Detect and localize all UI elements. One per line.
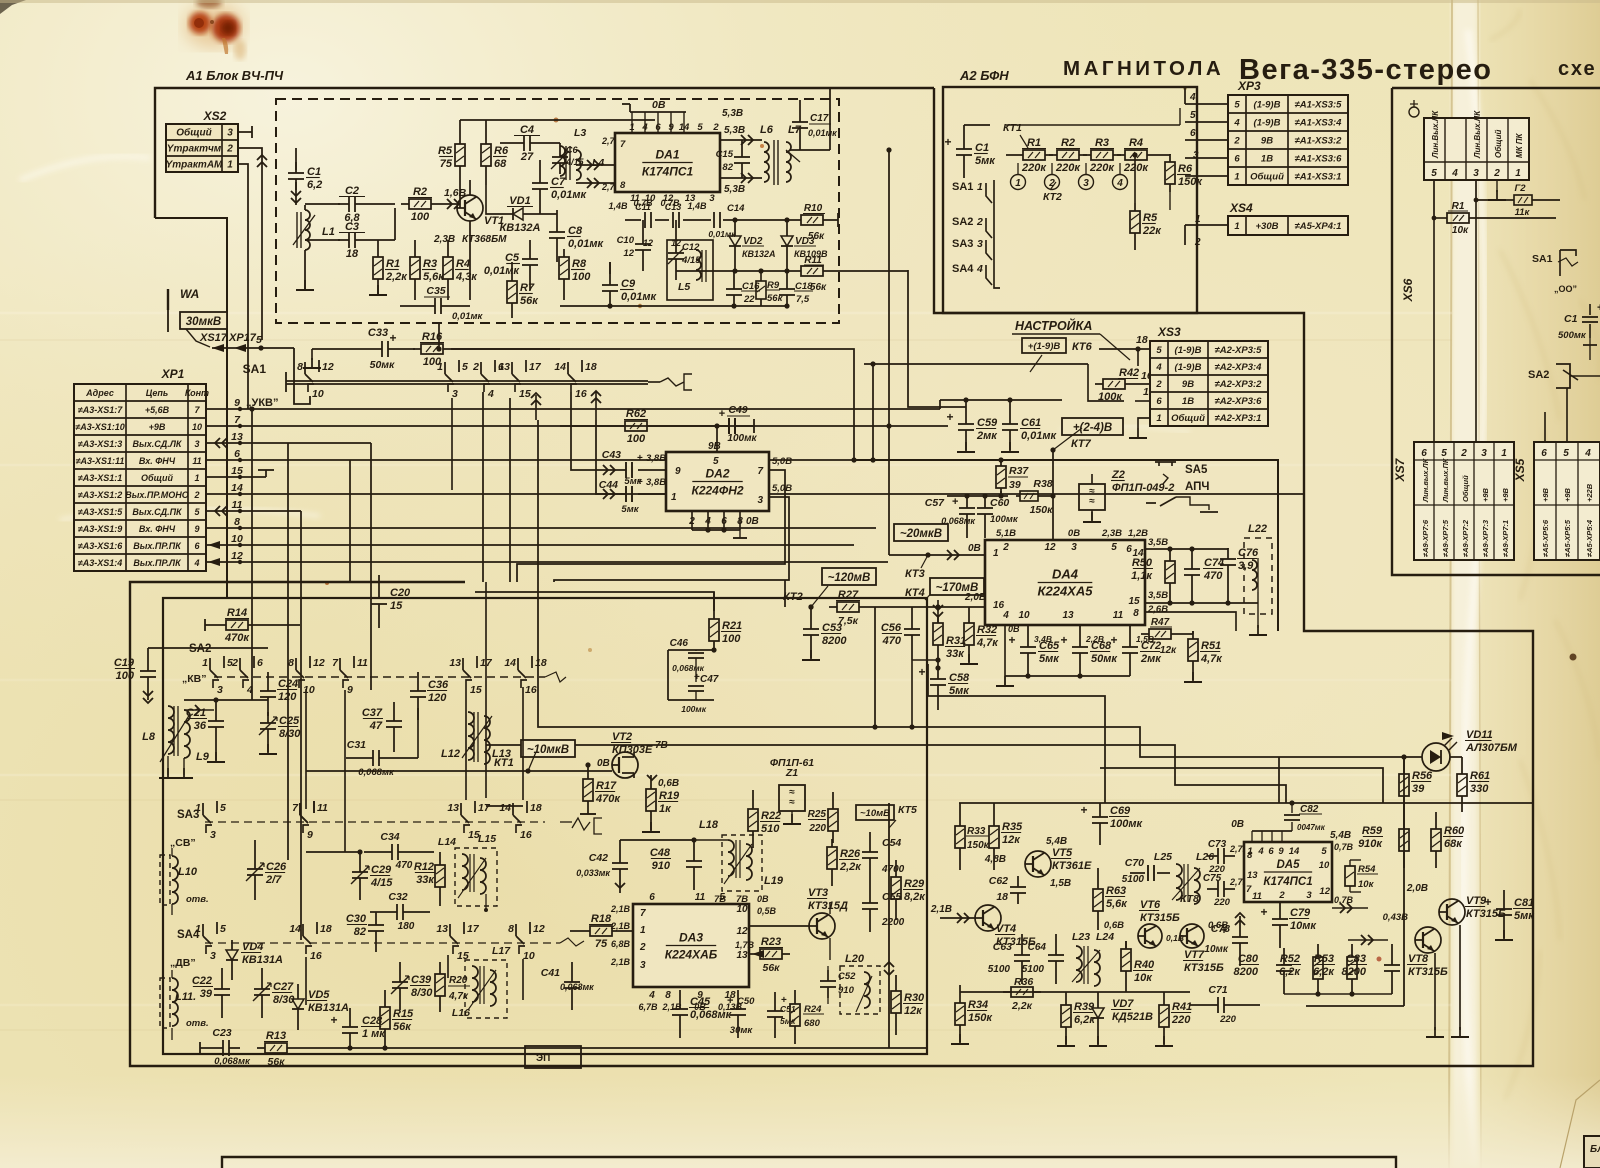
svg-text:R41: R41 <box>1172 1001 1192 1013</box>
svg-text:+30В: +30В <box>1256 221 1279 232</box>
svg-text:C27: C27 <box>273 981 294 993</box>
svg-text:≠А5-ХР5:4: ≠А5-ХР5:4 <box>1585 519 1594 557</box>
svg-text:SA3: SA3 <box>952 238 973 250</box>
svg-text:22: 22 <box>743 294 755 305</box>
capacitor C21 <box>215 710 217 721</box>
svg-text:DA2: DA2 <box>705 467 729 481</box>
svg-text:≠А5-ХР5:5: ≠А5-ХР5:5 <box>1563 519 1572 557</box>
svg-text:6,2к: 6,2к <box>1279 966 1301 978</box>
svg-text:C3: C3 <box>345 221 359 233</box>
svg-text:8: 8 <box>1133 608 1139 619</box>
long bus verticals from XP1 rows <box>251 409 253 700</box>
svg-text:2,2к: 2,2к <box>839 861 862 873</box>
svg-text:4: 4 <box>1155 362 1162 373</box>
svg-text:2,3В: 2,3В <box>433 234 455 245</box>
wire L9 to SA2 <box>184 709 214 711</box>
svg-text:1к: 1к <box>659 803 672 815</box>
svg-text:5: 5 <box>1563 448 1569 459</box>
svg-text:2: 2 <box>1002 542 1009 553</box>
svg-text:С64: С64 <box>1028 942 1047 953</box>
svg-text:5,6к: 5,6к <box>1106 898 1128 910</box>
svg-text:≠А1-XS3:1: ≠А1-XS3:1 <box>1295 172 1342 183</box>
capacitor C64 <box>1055 944 1057 955</box>
svg-text:100мк: 100мк <box>990 514 1019 525</box>
SA1 contact 1-5 <box>444 362 446 374</box>
svg-text:3,4В: 3,4В <box>1034 634 1052 644</box>
svg-text:36: 36 <box>194 720 207 732</box>
svg-text:C52: C52 <box>838 971 856 982</box>
svg-text:С62: С62 <box>989 875 1008 887</box>
svg-text:+: + <box>330 1013 337 1027</box>
resistor R12 <box>439 857 441 865</box>
XS2 pin3 stub <box>238 131 252 133</box>
svg-text:С60: С60 <box>990 497 1009 509</box>
svg-text:R61: R61 <box>1470 770 1490 782</box>
svg-text:Вых.ПР.ЛК: Вых.ПР.ЛК <box>133 558 182 568</box>
svg-text:C24: C24 <box>278 678 298 690</box>
svg-text:ХР1: ХР1 <box>161 367 185 381</box>
svg-text:4: 4 <box>1189 92 1196 103</box>
VT2 source arrow <box>647 775 657 780</box>
bus break symbol <box>648 381 660 383</box>
wire arrow to VT1 <box>447 199 452 209</box>
svg-text:9: 9 <box>307 829 313 841</box>
trimmer C39 <box>399 971 401 982</box>
svg-text:C80: C80 <box>1238 953 1259 965</box>
circled wiper numbers <box>1011 175 1026 190</box>
svg-text:22к: 22к <box>1142 225 1162 237</box>
svg-text:1,2В: 1,2В <box>1128 528 1148 539</box>
svg-text:L10: L10 <box>178 866 198 878</box>
svg-text:КВ132А: КВ132А <box>742 249 776 259</box>
svg-text:R23: R23 <box>761 936 781 948</box>
svg-text:≠А5-ХР4:1: ≠А5-ХР4:1 <box>1295 221 1342 232</box>
SA4 contact 1-5 <box>202 924 204 936</box>
svg-text:1: 1 <box>437 361 443 373</box>
svg-text:А1 Блок ВЧ-ПЧ: А1 Блок ВЧ-ПЧ <box>185 68 284 83</box>
svg-text:1: 1 <box>195 802 201 814</box>
svg-text:R60: R60 <box>1444 825 1465 837</box>
svg-text:8: 8 <box>508 923 514 935</box>
svg-text:+(2-4)В: +(2-4)В <box>1073 422 1112 434</box>
SA1 contact 8-12 <box>304 362 306 374</box>
capacitor C72 <box>1129 636 1131 647</box>
svg-text:0В: 0В <box>757 894 769 904</box>
capacitor C46 <box>695 650 697 651</box>
svg-text:VT4: VT4 <box>996 923 1016 935</box>
svg-text:4: 4 <box>1116 178 1123 189</box>
svg-text:C20: C20 <box>390 587 411 599</box>
svg-text:C59: C59 <box>977 417 998 429</box>
wires farright <box>1305 630 1307 632</box>
svg-text:17: 17 <box>480 657 493 669</box>
svg-text:3,5В: 3,5В <box>1148 537 1168 548</box>
svg-text:C53: C53 <box>822 622 842 634</box>
block A1 step wire <box>155 218 227 598</box>
svg-text:5,6к: 5,6к <box>423 271 445 283</box>
SA2 contact 8-12 <box>295 658 297 670</box>
svg-text:2,1В: 2,1В <box>610 957 631 967</box>
svg-text:(1-9)В: (1-9)В <box>1254 118 1281 129</box>
diode VD7 <box>1097 1001 1099 1008</box>
svg-text:R1: R1 <box>386 258 400 270</box>
XS6 pin2 ground <box>1496 180 1498 192</box>
resistor R1 (A2) <box>1015 154 1023 156</box>
diode VD5 <box>297 992 299 999</box>
svg-text:2,1В: 2,1В <box>610 921 631 931</box>
svg-text:6: 6 <box>257 657 263 669</box>
svg-text:5: 5 <box>1321 846 1327 857</box>
svg-text:+: + <box>1008 633 1015 647</box>
svg-text:C4: C4 <box>520 124 534 136</box>
svg-text:C2: C2 <box>345 185 359 197</box>
contacts 7-11 row2 <box>299 803 301 815</box>
svg-text:≠А1-XS3:2: ≠А1-XS3:2 <box>1295 136 1343 147</box>
svg-text:L16: L16 <box>452 1007 470 1019</box>
svg-text:500мк: 500мк <box>1558 330 1587 341</box>
XP3 pin wires <box>1185 103 1228 105</box>
svg-text:≈: ≈ <box>789 797 795 808</box>
svg-text:МАГНИТОЛА: МАГНИТОЛА <box>1063 57 1224 80</box>
capacitor C74 <box>1191 558 1193 569</box>
svg-text:L20: L20 <box>845 953 865 965</box>
svg-text:R19: R19 <box>659 790 680 802</box>
svg-text:L1: L1 <box>322 226 335 238</box>
svg-text:150к: 150к <box>967 840 990 851</box>
svg-text:12: 12 <box>533 923 545 935</box>
svg-text:+9В: +9В <box>1481 487 1490 502</box>
resistor R59 <box>1403 821 1405 829</box>
XS4 wires <box>1185 224 1228 226</box>
capacitor C11 <box>634 219 641 221</box>
wire C59 C61 top <box>940 399 1062 401</box>
trimmer C29 <box>359 861 361 872</box>
SA2 contact 1-5 <box>209 658 211 670</box>
svg-text:910: 910 <box>652 860 671 872</box>
svg-text:5: 5 <box>256 334 262 346</box>
svg-text:150к: 150к <box>1178 176 1203 188</box>
capacitor C3 <box>305 239 340 241</box>
svg-text:ХS5: ХS5 <box>1513 458 1527 482</box>
R16 long wire <box>451 349 854 460</box>
svg-text:≠А2-ХР3:4: ≠А2-ХР3:4 <box>1215 362 1263 373</box>
wires DA5 misc <box>991 802 993 804</box>
svg-text:1,7В: 1,7В <box>735 940 755 950</box>
svg-text:9: 9 <box>194 524 199 534</box>
svg-text:(1-9)В: (1-9)В <box>1175 345 1202 356</box>
svg-text:DA4: DA4 <box>1052 567 1079 582</box>
capacitor C62 <box>1017 876 1019 887</box>
resistor R50 <box>1169 553 1171 561</box>
svg-text:4: 4 <box>1257 846 1264 857</box>
svg-text:4/15: 4/15 <box>370 877 393 889</box>
svg-text:C76: C76 <box>1238 547 1259 559</box>
svg-text:14: 14 <box>289 923 301 935</box>
measbox +(2-4)В <box>1062 418 1123 435</box>
svg-text:220к: 220к <box>1089 162 1115 174</box>
transistor VT2 КП303Е (FET) <box>612 752 638 778</box>
svg-text:75: 75 <box>595 938 608 950</box>
op-amp DA3 К224ХАБ <box>633 904 749 987</box>
svg-text:≠А2-ХР3:2: ≠А2-ХР3:2 <box>1215 379 1263 390</box>
svg-text:0В: 0В <box>1008 624 1020 634</box>
svg-text:4,7к: 4,7к <box>1200 653 1223 665</box>
svg-text:R5: R5 <box>1143 212 1158 224</box>
KT4 arrow down <box>933 605 943 610</box>
svg-text:3: 3 <box>1481 448 1487 459</box>
svg-text:6: 6 <box>1421 448 1427 459</box>
svg-text:2,3В: 2,3В <box>1101 528 1122 539</box>
mid block DA5 section box <box>1306 1005 1404 1007</box>
svg-text:2: 2 <box>976 216 983 228</box>
svg-text:3,9: 3,9 <box>1238 560 1254 572</box>
VT3 wires <box>749 925 809 927</box>
SA3 contact 1-5 <box>202 803 204 815</box>
XP1 row wires <box>206 408 940 410</box>
SA1 contact 2-6 <box>480 362 482 374</box>
svg-text:8: 8 <box>288 657 294 669</box>
svg-text:R6: R6 <box>494 145 509 157</box>
svg-text:6,2: 6,2 <box>307 179 322 191</box>
resistor R42 <box>1095 383 1103 385</box>
svg-text:6,2к: 6,2к <box>1313 966 1335 978</box>
svg-text:C30: C30 <box>346 913 367 925</box>
svg-text:VD11: VD11 <box>1466 729 1493 741</box>
capacitor C47 <box>688 685 704 687</box>
svg-text:VT2: VT2 <box>612 731 632 743</box>
SA2 contact 13-17 <box>462 658 464 670</box>
svg-text:11к: 11к <box>1515 207 1531 218</box>
svg-text:3: 3 <box>217 684 223 696</box>
svg-text:13: 13 <box>1247 870 1258 881</box>
svg-text:Вых.СД.ЛК: Вых.СД.ЛК <box>133 439 183 449</box>
vertical x889 wire <box>888 150 890 555</box>
svg-text:0,5В: 0,5В <box>757 906 777 916</box>
small box ЭП bottom <box>525 1046 581 1068</box>
svg-text:+: + <box>1260 905 1267 919</box>
wire top rail A1 <box>460 119 655 121</box>
capacitor C43 <box>600 469 626 471</box>
resistor R9 <box>760 271 762 281</box>
svg-text:3: 3 <box>452 388 458 400</box>
svg-text:18: 18 <box>535 657 547 669</box>
svg-text:3: 3 <box>709 193 715 204</box>
VD11 wires <box>1279 756 1422 758</box>
svg-text:R11: R11 <box>804 255 822 266</box>
svg-text:+: + <box>944 135 951 149</box>
svg-text:+: + <box>719 408 725 420</box>
capacitor C44 <box>600 493 626 495</box>
transistor VT8 КТ315Б <box>1415 927 1441 953</box>
svg-text:Бл: Бл <box>1590 1144 1600 1155</box>
measbox ~170мВ <box>930 578 984 595</box>
svg-text:68: 68 <box>494 158 507 170</box>
svg-text:DA1: DA1 <box>655 148 679 162</box>
svg-text:220: 220 <box>1171 1014 1191 1026</box>
capacitor C31 <box>362 757 373 759</box>
svg-text:C36: C36 <box>428 679 449 691</box>
right block outline <box>1392 88 1600 575</box>
svg-text:Лин.Вых.ЛК: Лин.Вых.ЛК <box>1473 110 1482 159</box>
svg-text:18: 18 <box>1136 334 1148 346</box>
op-amp DA4 К224ХА5 <box>985 540 1145 625</box>
svg-text:С63: С63 <box>993 941 1012 953</box>
svg-text:10: 10 <box>312 388 324 400</box>
svg-text:0,7В: 0,7В <box>1334 842 1354 852</box>
wires tuner block vertical columns <box>305 689 307 809</box>
svg-text:56к: 56к <box>393 1021 412 1033</box>
svg-text:3,8В: 3,8В <box>646 477 666 488</box>
svg-text:5мк: 5мк <box>1514 910 1535 922</box>
svg-text:2: 2 <box>1194 237 1201 248</box>
svg-text:≠А1-XS3:5: ≠А1-XS3:5 <box>1295 100 1343 111</box>
svg-text:C32: C32 <box>388 891 407 903</box>
svg-text:6,2к: 6,2к <box>1074 1014 1096 1026</box>
capacitor C7 <box>539 172 541 183</box>
svg-text:Yтрактчм: Yтрактчм <box>167 144 222 155</box>
svg-text:R9: R9 <box>767 280 780 291</box>
wire KT1 to VT2 gate <box>306 770 612 772</box>
capacitor C18 <box>786 278 788 289</box>
svg-text:КТ7: КТ7 <box>1071 438 1092 450</box>
svg-text:XS2: XS2 <box>203 109 227 123</box>
capacitor C34 <box>381 851 392 853</box>
transistor VT6 КТ315Б <box>1138 924 1162 948</box>
svg-text:8200: 8200 <box>822 635 847 647</box>
svg-text:+: + <box>637 453 643 464</box>
svg-text:отв.: отв. <box>186 1018 209 1029</box>
bottom rail DA5 area <box>1284 993 1392 995</box>
svg-text:C25: C25 <box>279 715 300 727</box>
svg-text:0В: 0В <box>968 543 981 554</box>
svg-text:910к: 910к <box>1358 838 1383 850</box>
resistor R1 (right) <box>1434 217 1447 219</box>
capacitor C5 <box>529 248 531 259</box>
wire C56 R31 bottom <box>912 659 938 661</box>
svg-text:R5: R5 <box>438 145 453 157</box>
SA2 contact 14-18 <box>517 658 519 670</box>
svg-text:0,7В: 0,7В <box>1334 895 1354 905</box>
svg-text:6: 6 <box>1190 128 1196 139</box>
svg-text:0,01мк: 0,01мк <box>551 189 588 201</box>
diode VD2 <box>734 229 736 236</box>
svg-text:11: 11 <box>357 657 368 669</box>
svg-text:5: 5 <box>1431 168 1437 179</box>
svg-text:2: 2 <box>1493 168 1500 179</box>
svg-text:1: 1 <box>1195 214 1201 225</box>
SA4 contact 14-18 <box>302 924 304 936</box>
svg-text:R56: R56 <box>1412 770 1433 782</box>
svg-text:КТ1: КТ1 <box>494 757 514 769</box>
svg-text:КТ8: КТ8 <box>1180 893 1199 905</box>
svg-text:100: 100 <box>411 211 430 223</box>
svg-text:8: 8 <box>297 361 303 373</box>
svg-text:5,3В: 5,3В <box>722 108 743 119</box>
wire L5 bottom to rail <box>675 280 677 306</box>
filter Z2 box <box>1079 484 1105 510</box>
capacitor C15 <box>741 146 743 157</box>
resistor R24 <box>794 996 796 1004</box>
svg-text:НАСТРОЙКА: НАСТРОЙКА <box>1015 317 1092 333</box>
top rail bottom-right <box>959 802 1533 804</box>
svg-text:„КВ”: „КВ” <box>182 673 207 685</box>
svg-text:VT6: VT6 <box>1140 899 1161 911</box>
svg-text:Общий: Общий <box>1461 475 1470 502</box>
svg-text:18: 18 <box>585 361 597 373</box>
svg-text:16: 16 <box>310 950 322 962</box>
wire C57 C60 top rail <box>947 495 1008 497</box>
svg-text:~20мкВ: ~20мкВ <box>900 528 942 540</box>
vertical from XS2 down <box>247 340 249 409</box>
DA2 right pins <box>517 470 785 582</box>
capacitor C35 <box>400 305 424 307</box>
svg-text:4: 4 <box>487 388 494 400</box>
capacitor C23 <box>212 1047 223 1049</box>
svg-text:1В: 1В <box>1261 154 1273 165</box>
svg-text:17: 17 <box>467 923 480 935</box>
svg-text:0В: 0В <box>1068 528 1080 539</box>
svg-text:R47: R47 <box>1151 617 1170 628</box>
capacitor C20 <box>378 587 380 598</box>
measbox +(1-9)В <box>1022 338 1066 353</box>
svg-text:5: 5 <box>713 456 719 467</box>
svg-text:0,1В: 0,1В <box>1166 933 1184 943</box>
svg-text:R50: R50 <box>1132 557 1153 569</box>
capacitor C75 <box>1207 888 1218 890</box>
svg-text:100: 100 <box>627 433 646 445</box>
svg-text:VD5: VD5 <box>308 989 330 1001</box>
resistor R19 <box>650 781 652 789</box>
resistor R54 <box>1350 859 1361 861</box>
filter Z1 box <box>779 785 805 811</box>
resistor R14 <box>218 624 226 626</box>
svg-text:Вых.ПР.ПК: Вых.ПР.ПК <box>133 541 182 551</box>
resistor R16 <box>413 348 421 350</box>
resistor R13 <box>257 1047 265 1049</box>
svg-text:C48: C48 <box>650 847 671 859</box>
svg-text:SA1: SA1 <box>952 181 973 193</box>
svg-text:5: 5 <box>1190 110 1196 121</box>
svg-text:C70: C70 <box>1125 857 1144 869</box>
A2 bus wires right <box>1169 192 1171 210</box>
C78 arrows up <box>1235 920 1245 925</box>
svg-text:КТ5: КТ5 <box>898 804 917 816</box>
svg-text:АПЧ: АПЧ <box>1185 481 1210 493</box>
svg-text:VT7: VT7 <box>1184 949 1205 961</box>
svg-text:R42: R42 <box>1119 367 1139 379</box>
transistor VT7 КТ315Б <box>1180 924 1204 948</box>
svg-text:5мк: 5мк <box>780 1016 796 1026</box>
svg-text:VT3: VT3 <box>808 887 828 899</box>
svg-text:R51: R51 <box>1201 640 1221 652</box>
svg-text:≠А9-ХР7:2: ≠А9-ХР7:2 <box>1461 519 1470 557</box>
svg-text:КТ6: КТ6 <box>1072 341 1093 353</box>
svg-text:10: 10 <box>1018 610 1030 621</box>
SA3 contact 7-11 <box>299 803 301 815</box>
svg-text:+9В: +9В <box>149 422 166 432</box>
resistor R3 (A2) <box>1083 154 1091 156</box>
svg-text:С75: С75 <box>1203 873 1222 884</box>
svg-text:5: 5 <box>1441 448 1447 459</box>
svg-text:2,1В: 2,1В <box>610 904 631 914</box>
svg-text:220к: 220к <box>1055 162 1081 174</box>
svg-text:R26: R26 <box>840 848 861 860</box>
svg-text:„ОО”: „ОО” <box>1554 284 1577 294</box>
wires DA3 area <box>620 839 694 841</box>
svg-text:ХР17: ХР17 <box>228 332 257 344</box>
svg-text:0,068мк: 0,068мк <box>690 1009 733 1021</box>
C42 arrow down <box>615 883 625 888</box>
